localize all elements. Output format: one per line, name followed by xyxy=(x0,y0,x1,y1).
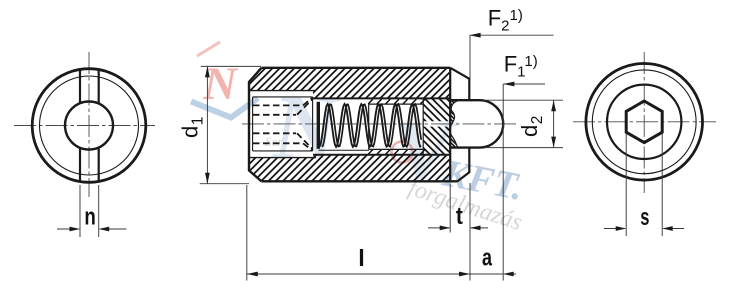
svg-text:l: l xyxy=(358,245,365,271)
svg-text:d2: d2 xyxy=(517,116,546,137)
svg-text:Ser: Ser xyxy=(265,134,283,149)
svg-text:t: t xyxy=(456,203,463,230)
svg-text:d1: d1 xyxy=(178,117,207,138)
svg-text:F11): F11) xyxy=(504,51,538,80)
svg-text:a: a xyxy=(482,244,492,271)
svg-text:n: n xyxy=(84,203,95,230)
svg-text:s: s xyxy=(640,204,649,231)
svg-text:F21): F21) xyxy=(488,5,523,34)
